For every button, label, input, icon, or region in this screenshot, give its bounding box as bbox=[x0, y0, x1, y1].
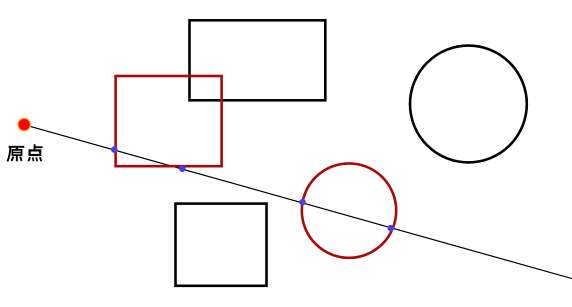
rectangle R2 (dark red) bbox=[116, 76, 222, 166]
intersection point 1 (blue, on left edge of red rectangle) bbox=[111, 146, 118, 153]
rectangle R3 (black, bottom) bbox=[176, 204, 267, 286]
intersection point 3 (blue, left of red circle) bbox=[299, 199, 306, 206]
intersection point 2 (blue, on bottom edge of red rectangle) bbox=[179, 165, 186, 172]
origin point (red dot with orange rim) bbox=[18, 118, 30, 130]
circle C1 (black) bbox=[410, 46, 527, 163]
secant line from origin bbox=[25, 125, 572, 279]
rectangle R1 (black, top) bbox=[190, 20, 326, 100]
circle C2 (dark red) bbox=[302, 163, 396, 257]
label 原点 : glyph 原 drawn as strokes bbox=[7, 147, 24, 162]
intersection point 4 (blue, right of red circle) bbox=[388, 225, 395, 232]
label 原点 : glyph 点 drawn as strokes bbox=[29, 144, 43, 161]
